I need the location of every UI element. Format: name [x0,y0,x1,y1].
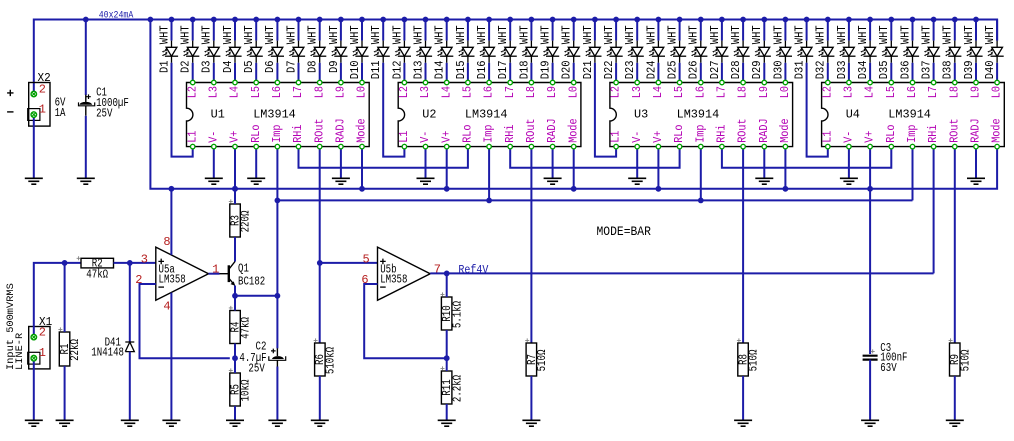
svg-text:V-: V- [207,131,220,143]
wire +6V feeder and V+ bus (bus A) [150,20,997,189]
wire R11 to ground [446,404,448,420]
svg-text:L8: L8 [313,86,326,98]
junction Imp U3 on signal bus [698,198,704,204]
LED D10 (WHT) [349,20,369,83]
svg-text:WHT: WHT [857,25,870,44]
svg-text:L3: L3 [631,86,644,98]
svg-text:U4: U4 [846,107,860,121]
op-amp U5a LM358 [135,235,219,313]
junction Mode U3 on bus A [783,186,789,192]
LED D1 (WHT) [158,20,178,74]
wire U1 Imp to signal bus [276,147,278,296]
svg-text:WHT: WHT [349,25,362,44]
svg-text:25V: 25V [96,108,112,121]
svg-text:2: 2 [39,325,46,339]
svg-text:WHT: WHT [455,25,468,44]
wire U2 Mode to +6V bus [573,147,575,189]
junction rail-D32 [825,17,831,23]
svg-text:ROut: ROut [737,118,750,142]
svg-text:RADJ: RADJ [335,118,348,142]
wire D1 cathode to U1 L1 [172,63,193,157]
svg-text:RADJ: RADJ [970,118,983,142]
wire U5a pin 2 feedback [140,284,230,358]
svg-text:BC182: BC182 [238,275,265,288]
svg-text:U2: U2 [422,107,436,121]
wire Ref4V to R10 [446,273,448,297]
svg-text:D35: D35 [878,60,891,79]
ground X2 [25,178,43,184]
junction rail-D16 [486,17,492,23]
svg-text:D26: D26 [688,60,701,79]
svg-text:Imp: Imp [694,124,707,142]
LED D14 (WHT) [434,20,454,83]
svg-text:47kΩ: 47kΩ [86,269,108,282]
svg-text:RLo: RLo [462,124,475,142]
svg-text:L7: L7 [927,86,940,98]
svg-text:L4: L4 [652,86,665,98]
junction Mode U1 on bus A [359,186,365,192]
wire R4 to divider node [234,344,236,359]
junction Mode U2 on bus A [571,186,577,192]
wire X2 pin 1 to ground [33,115,35,179]
junction rail-D36 [910,17,916,23]
junction D41 node [127,260,133,266]
svg-text:Imp: Imp [906,124,919,142]
LED D30 (WHT) [772,20,792,83]
svg-text:D34: D34 [857,60,870,79]
wire U3 V- to ground [636,147,638,179]
capacitor C3 100nF 63V [863,189,908,375]
junction V+ U1 on bus A [232,186,238,192]
svg-text:D21: D21 [582,60,595,79]
svg-text:63V: 63V [880,362,896,375]
junction rail-D29 [761,17,767,23]
junction rail-D33 [846,17,852,23]
svg-text:8: 8 [163,235,170,249]
svg-text:1N4148: 1N4148 [91,347,124,360]
svg-text:10kΩ: 10kΩ [240,380,253,402]
svg-text:Imp: Imp [271,124,284,142]
svg-text:RHi: RHi [292,124,305,142]
svg-text:WHT: WHT [264,25,277,44]
capacitor C1 1000uF 25V [79,20,129,121]
svg-text:WHT: WHT [201,25,214,44]
junction rail-D14 [444,17,450,23]
wire D41 to ground [129,352,131,421]
svg-text:D32: D32 [815,60,828,79]
svg-text:L9: L9 [546,86,559,98]
svg-text:L4: L4 [229,86,242,98]
svg-text:RLo: RLo [673,124,686,142]
svg-text:25V: 25V [248,363,264,376]
svg-text:L5: L5 [673,86,686,98]
svg-text:L6: L6 [694,86,707,98]
LED D8 (WHT) [307,20,327,83]
wire node to R5 [234,358,236,373]
junction V+ U3 on bus A [656,186,662,192]
svg-text:510Ω: 510Ω [959,350,972,372]
svg-text:WHT: WHT [412,25,425,44]
svg-text:L8: L8 [737,86,750,98]
LED D26 (WHT) [688,20,708,83]
junction input node R1 [62,260,68,266]
svg-text:L6: L6 [271,86,284,98]
svg-text:D10: D10 [349,60,362,79]
svg-text:L5: L5 [462,86,475,98]
resistor R1 22k [58,327,82,366]
ground D41 [121,420,139,426]
resistor R6 510k [314,338,338,376]
svg-text:LM358: LM358 [380,274,407,287]
svg-text:L3: L3 [207,86,220,98]
diode D41 1N4148 [91,263,134,360]
svg-text:L5: L5 [885,86,898,98]
svg-text:5.1kΩ: 5.1kΩ [451,301,464,328]
LED D7 (WHT) [285,20,305,83]
ground U5a pin 4 [162,420,180,426]
resistor R8 510 [737,338,761,376]
wire U3 ROut to R8 [742,147,744,343]
wire U4 RADJ to ground [975,147,977,179]
svg-text:WHT: WHT [836,25,849,44]
wire C2 to ground [276,367,278,421]
svg-text:510Ω: 510Ω [748,350,761,372]
svg-text:L0: L0 [567,86,580,98]
svg-text:WHT: WHT [772,25,785,44]
svg-text:D8: D8 [307,60,320,73]
svg-text:ROut: ROut [525,118,538,142]
svg-text:WHT: WHT [878,25,891,44]
junction rail-D6 [275,17,281,23]
svg-text:WHT: WHT [222,25,235,44]
junction rail-D12 [402,17,408,23]
svg-text:1: 1 [39,102,46,116]
svg-text:D5: D5 [243,60,256,73]
svg-text:L8: L8 [525,86,538,98]
svg-text:D7: D7 [285,60,298,73]
svg-text:Mode: Mode [991,118,1004,142]
svg-text:L9: L9 [335,86,348,98]
wire Q1 emitter to node [235,286,277,296]
svg-text:D39: D39 [963,60,976,79]
connector X2 (6V 1A supply) [7,72,65,126]
LED D3 (WHT) [201,20,221,83]
junction rail-D18 [529,17,535,23]
svg-text:L7: L7 [292,86,305,98]
capacitor C2 4.7uF 25V [239,296,285,376]
LED D39 (WHT) [963,20,983,83]
svg-text:D25: D25 [667,60,680,79]
wire C3 to ground [869,360,871,421]
junction rail-D31 [804,17,810,23]
svg-text:2: 2 [39,83,46,97]
op-amp U5b LM358 [361,247,441,300]
ground C2 [268,420,286,426]
svg-text:510kΩ: 510kΩ [324,347,337,374]
wire U5b pin 6 feedback [364,284,447,358]
junction Ref4V / R10 [444,271,450,277]
junction rail-D13 [423,17,429,23]
junction rail-D28 [740,17,746,23]
wire emitter node to R4 [234,296,236,311]
svg-text:LM358: LM358 [159,274,186,287]
junction rail-D2 [190,17,196,23]
LED D15 (WHT) [455,20,475,83]
svg-text:WHT: WHT [582,25,595,44]
svg-text:D38: D38 [942,60,955,79]
svg-text:L0: L0 [779,86,792,98]
svg-text:RHi: RHi [927,124,940,142]
op-amp-driver IC U2 LM3914 [398,80,581,149]
svg-text:D11: D11 [370,60,383,79]
wire U4 V- to ground [848,147,850,179]
junction emitter-C2/signal [275,293,281,299]
svg-text:RADJ: RADJ [546,118,559,142]
LED D18 (WHT) [518,20,538,83]
wire U5a pin 8 to +6V bus [170,189,172,255]
junction R4/R5 node [232,355,238,361]
svg-text:Mode: Mode [567,118,580,142]
svg-text:Imp: Imp [483,124,496,142]
wire U2 V+ to +6V bus [446,147,448,189]
svg-text:D6: D6 [264,60,277,73]
wire U5a output to Q1 base [209,273,220,275]
svg-text:WHT: WHT [794,25,807,44]
wire R8 to ground [742,376,744,420]
svg-text:40x24mA: 40x24mA [99,10,134,21]
LED D38 (WHT) [942,20,962,83]
LED D4 (WHT) [222,20,242,83]
junction rail-D4 [232,17,238,23]
svg-text:L4: L4 [864,86,877,98]
svg-text:L2: L2 [186,86,199,98]
ground C1 [77,178,95,184]
svg-text:WHT: WHT [497,25,510,44]
junction rail-D39 [973,17,979,23]
junction rail-D27 [719,17,725,23]
wire R1 to ground [64,366,66,420]
LED D5 (WHT) [243,20,263,83]
LED D40 (WHT) [984,20,1004,83]
svg-text:L1: L1 [186,131,199,143]
svg-text:D4: D4 [222,60,235,73]
svg-text:L7: L7 [716,86,729,98]
junction rail-C1 [83,17,89,23]
svg-text:V+: V+ [652,131,665,143]
junction R10/R11 node [444,355,450,361]
svg-text:L0: L0 [991,86,1004,98]
svg-text:L4: L4 [440,86,453,98]
svg-text:WHT: WHT [561,25,574,44]
ground U2 RADJ [544,178,562,184]
wire D31 cathode to U4 L1 [807,63,828,157]
wire U5b output Ref4V to U4 RHi [430,272,933,274]
junction rail-D35 [888,17,894,23]
svg-text:U3: U3 [634,107,648,121]
svg-text:D31: D31 [794,60,807,79]
LED D19 (WHT) [540,20,560,83]
svg-text:L1: L1 [398,131,411,143]
junction R3 on bus A [232,186,238,192]
svg-text:D15: D15 [455,60,468,79]
svg-text:RHi: RHi [504,124,517,142]
svg-text:WHT: WHT [243,25,256,44]
wire +6V bus to R3 [234,189,236,204]
wire X1 pin 1 to ground [33,358,35,420]
wire U3 V+ to +6V bus [657,147,659,189]
svg-text:LM3914: LM3914 [888,107,931,121]
svg-text:1A: 1A [55,107,66,120]
junction rail-D7 [296,17,302,23]
svg-text:V+: V+ [440,131,453,143]
LED D2 (WHT) [180,20,200,83]
junction ROut U1 / R6 / U5b pin5 [317,260,323,266]
svg-text:2.2kΩ: 2.2kΩ [451,375,464,402]
svg-text:4: 4 [163,300,170,314]
junction rail-D37 [931,17,937,23]
wire U2 RLo to U1 RHi (divider chain) [299,147,468,168]
junction rail-D15 [465,17,471,23]
junction rail-D21 [592,17,598,23]
LED D33 (WHT) [836,20,856,83]
junction rail-D23 [634,17,640,23]
svg-text:L8: L8 [948,86,961,98]
wire D11 cathode to U2 L1 [383,63,404,157]
junction rail-D5 [253,17,259,23]
svg-text:7: 7 [434,263,441,277]
svg-text:Mode: Mode [779,118,792,142]
LED D37 (WHT) [921,20,941,83]
svg-text:Q1: Q1 [238,263,249,276]
ground C3 [861,420,879,426]
LED D25 (WHT) [667,20,687,83]
junction rail-D22 [613,17,619,23]
svg-text:LM3914: LM3914 [465,107,508,121]
svg-text:D30: D30 [772,60,785,79]
op-amp-driver IC U1 LM3914 [186,80,369,149]
wire U1 V- to ground [213,147,215,179]
wire U2 ROut to R7 [530,147,532,343]
svg-text:D12: D12 [391,60,404,79]
svg-text:LM3914: LM3914 [253,107,296,121]
junction V+ U4 on bus A [867,186,873,192]
LED D31 (WHT) [794,20,814,80]
LED D24 (WHT) [645,20,665,83]
svg-text:V+: V+ [864,131,877,143]
svg-text:L3: L3 [843,86,856,98]
junction rail-D26 [698,17,704,23]
svg-text:D33: D33 [836,60,849,79]
op-amp-driver IC U4 LM3914 [821,80,1004,149]
resistor R10 5.1k [441,292,465,330]
svg-text:5: 5 [362,252,369,266]
wire R5 to ground [234,406,236,420]
svg-text:3: 3 [141,252,148,266]
svg-text:WHT: WHT [942,25,955,44]
junction rail-D11 [380,17,386,23]
LED D27 (WHT) [709,20,729,83]
svg-text:WHT: WHT [603,25,616,44]
svg-text:L2: L2 [821,86,834,98]
svg-text:ROut: ROut [313,118,326,142]
op-amp-driver IC U3 LM3914 [610,80,793,149]
svg-text:WHT: WHT [624,25,637,44]
ground U1 V- [205,178,223,184]
junction rail-D38 [952,17,958,23]
svg-text:V+: V+ [229,131,242,143]
wire U2 RADJ to ground [552,147,554,179]
LED D6 (WHT) [264,20,284,83]
wire U4 Imp to signal bus [912,147,914,201]
svg-text:L9: L9 [758,86,771,98]
junction rail-D17 [507,17,513,23]
svg-text:L6: L6 [483,86,496,98]
junction rail-D1 [169,17,175,23]
ground R5 [226,420,244,426]
wire R7 to ground [530,376,532,420]
svg-text:220Ω: 220Ω [240,211,253,233]
svg-text:D14: D14 [434,60,447,79]
wire U3 Mode to +6V bus [784,147,786,189]
ground U3 RADJ [755,178,773,184]
LED D29 (WHT) [751,20,771,83]
LED D9 (WHT) [328,20,348,83]
svg-text:D9: D9 [328,60,341,73]
LED D13 (WHT) [412,20,432,83]
junction rail-D19 [550,17,556,23]
svg-text:D29: D29 [751,60,764,79]
svg-text:L1: L1 [821,131,834,143]
svg-text:L2: L2 [610,86,623,98]
LED D21 (WHT) [582,20,602,80]
LED D22 (WHT) [603,20,623,83]
wire U2 Imp to signal bus [488,147,490,201]
wire U4 V+ to +6V bus [869,147,871,189]
junction emitter-R4 [232,293,238,299]
svg-text:WHT: WHT [307,25,320,44]
svg-text:L6: L6 [906,86,919,98]
wire U1 RLo to ground [255,147,257,179]
svg-text:LINE-R: LINE-R [14,332,26,370]
svg-text:D1: D1 [158,60,171,73]
ground U2 V- [417,178,435,184]
LED D35 (WHT) [878,20,898,83]
wire R6 to ground [319,376,321,420]
svg-text:WHT: WHT [391,25,404,44]
svg-text:Ref4V: Ref4V [458,263,489,277]
wire U2 V- to ground [425,147,427,179]
svg-text:D27: D27 [709,60,722,79]
svg-text:WHT: WHT [645,25,658,44]
wire node to R11 [446,358,448,371]
wire R2 to U5a pin 3 [114,262,156,264]
svg-text:WHT: WHT [328,25,341,44]
svg-text:D28: D28 [730,60,743,79]
ground U1 RLo [247,178,265,184]
junction rail-D25 [677,17,683,23]
resistor R9 510 [949,338,973,376]
wire U1 ROut to U5b buffer input [319,147,321,343]
svg-text:WHT: WHT [285,25,298,44]
svg-text:MODE=BAR: MODE=BAR [597,224,652,239]
resistor R2 47k [77,256,114,281]
svg-text:WHT: WHT [667,25,680,44]
wire U1 Mode to +6V bus [361,147,363,189]
svg-text:D16: D16 [476,60,489,79]
svg-text:D18: D18 [518,60,531,79]
junction rail-D8 [317,17,323,23]
LED D17 (WHT) [497,20,517,83]
